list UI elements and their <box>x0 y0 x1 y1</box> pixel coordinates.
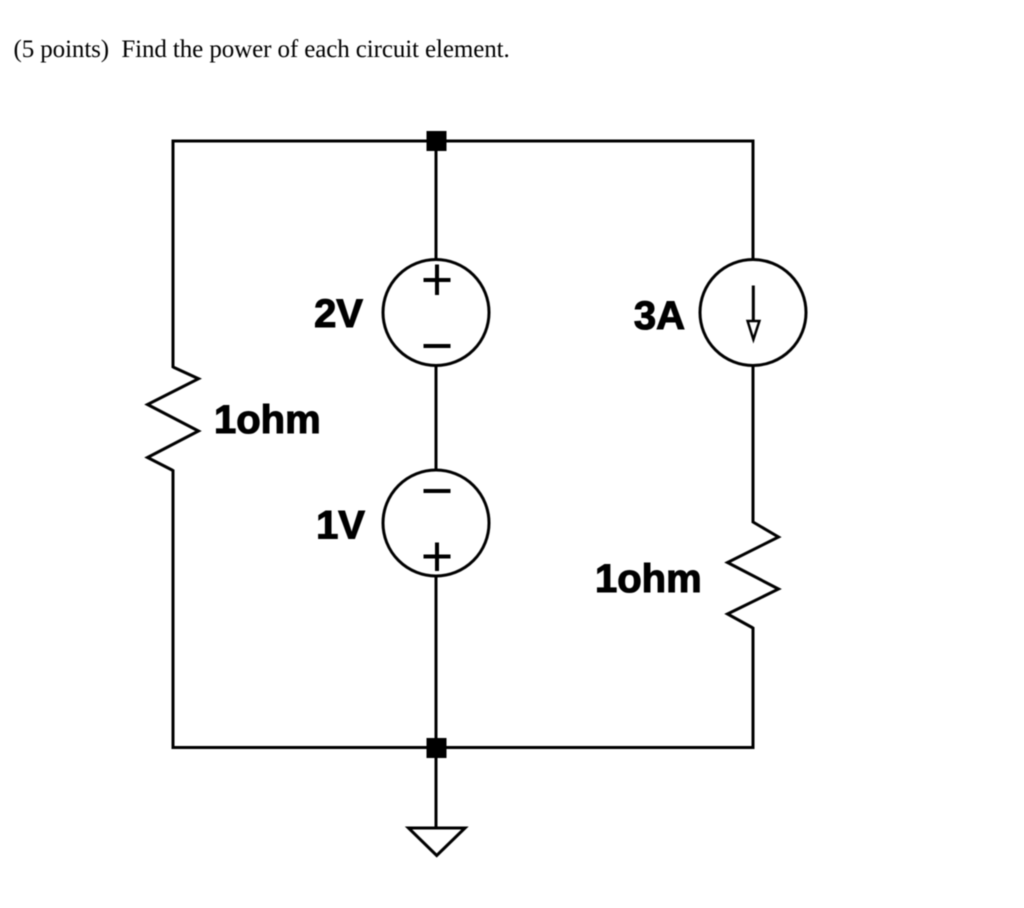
wire: middle branch between 2V and 1V sources <box>435 366 438 472</box>
wire: left branch upper segment <box>172 140 175 369</box>
resistor R2 1ohm (right branch zigzag) <box>728 522 779 628</box>
arrow shaft of 3A source <box>752 286 755 321</box>
svg-text:1ohm: 1ohm <box>214 398 321 442</box>
wire: top rail from left branch to right branch <box>172 140 755 143</box>
plus sign of 1V source <box>424 543 451 572</box>
voltage source V1 2V (circle) <box>383 260 489 366</box>
svg-text:1V: 1V <box>316 504 365 548</box>
voltage source V2 1V (circle) <box>383 470 489 576</box>
wire: middle branch from top node to 2V source <box>435 141 438 261</box>
svg-text:3A: 3A <box>634 294 685 338</box>
minus sign of 2V source <box>424 344 451 348</box>
wire: left branch lower segment <box>172 470 175 750</box>
svg-text:1ohm: 1ohm <box>595 557 702 601</box>
wire: middle branch from 1V source to bottom node and ground lead <box>435 576 438 829</box>
wire: right branch between current source and resistor <box>752 366 755 524</box>
wire: bottom rail from left branch to right branch <box>172 746 755 749</box>
wire: right branch from top rail to current source <box>752 140 755 262</box>
ground symbol (open triangle) <box>409 828 466 856</box>
svg-text:(5 points) Find the power of: (5 points) Find the power of each circui… <box>14 36 510 63</box>
minus sign of 1V source <box>424 489 451 493</box>
node: bottom junction (solid square) <box>427 738 447 758</box>
plus sign of 2V source <box>424 265 451 296</box>
arrow head of 3A source (open) <box>748 321 760 340</box>
node: top junction (solid square) <box>427 131 447 151</box>
svg-text:2V: 2V <box>314 292 363 336</box>
resistor R1 1ohm (left branch zigzag) <box>148 367 199 471</box>
wire: right branch lower segment <box>752 627 755 749</box>
current source I1 3A (circle) <box>700 260 806 366</box>
